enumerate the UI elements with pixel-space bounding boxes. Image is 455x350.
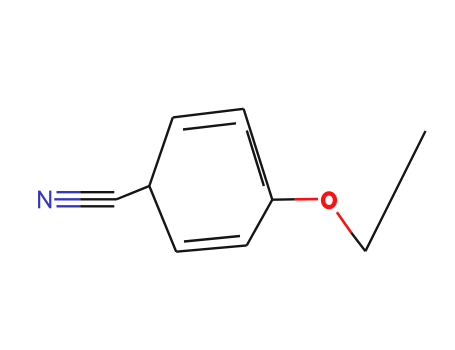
bond ring R to O: red half <box>295 198 318 201</box>
bond O to CH2: red half <box>337 212 351 232</box>
bond ring R to O: black half <box>272 198 295 201</box>
bond CH2 to CH3 (long diagonal) <box>365 131 425 251</box>
inner double-bond line (top edge) <box>183 123 236 129</box>
atom N (nitrile nitrogen, blue letter) <box>39 191 50 209</box>
bond nitrile C to ring vertex L <box>117 186 150 199</box>
benzene ring: edge TR-R <box>244 109 273 200</box>
bond O to CH2: black half <box>351 233 365 252</box>
triple bond N#C: black halves (C side) <box>80 192 116 206</box>
triple bond N#C: blue halves (N side) <box>54 192 80 206</box>
inner double-bond line (upper-right edge) <box>247 131 264 187</box>
benzene ring: edge BL-L <box>149 186 176 252</box>
atom O (ether oxygen, red letter) <box>323 193 335 207</box>
benzene ring: edge R-BR <box>247 200 273 246</box>
benzene ring: edge TL-TR (top) <box>173 109 244 118</box>
inner double-bond line (bottom edge) <box>184 236 240 242</box>
benzene ring: edge BR-BL (bottom) <box>176 245 247 251</box>
benzene ring: edge L-TL <box>149 117 173 186</box>
